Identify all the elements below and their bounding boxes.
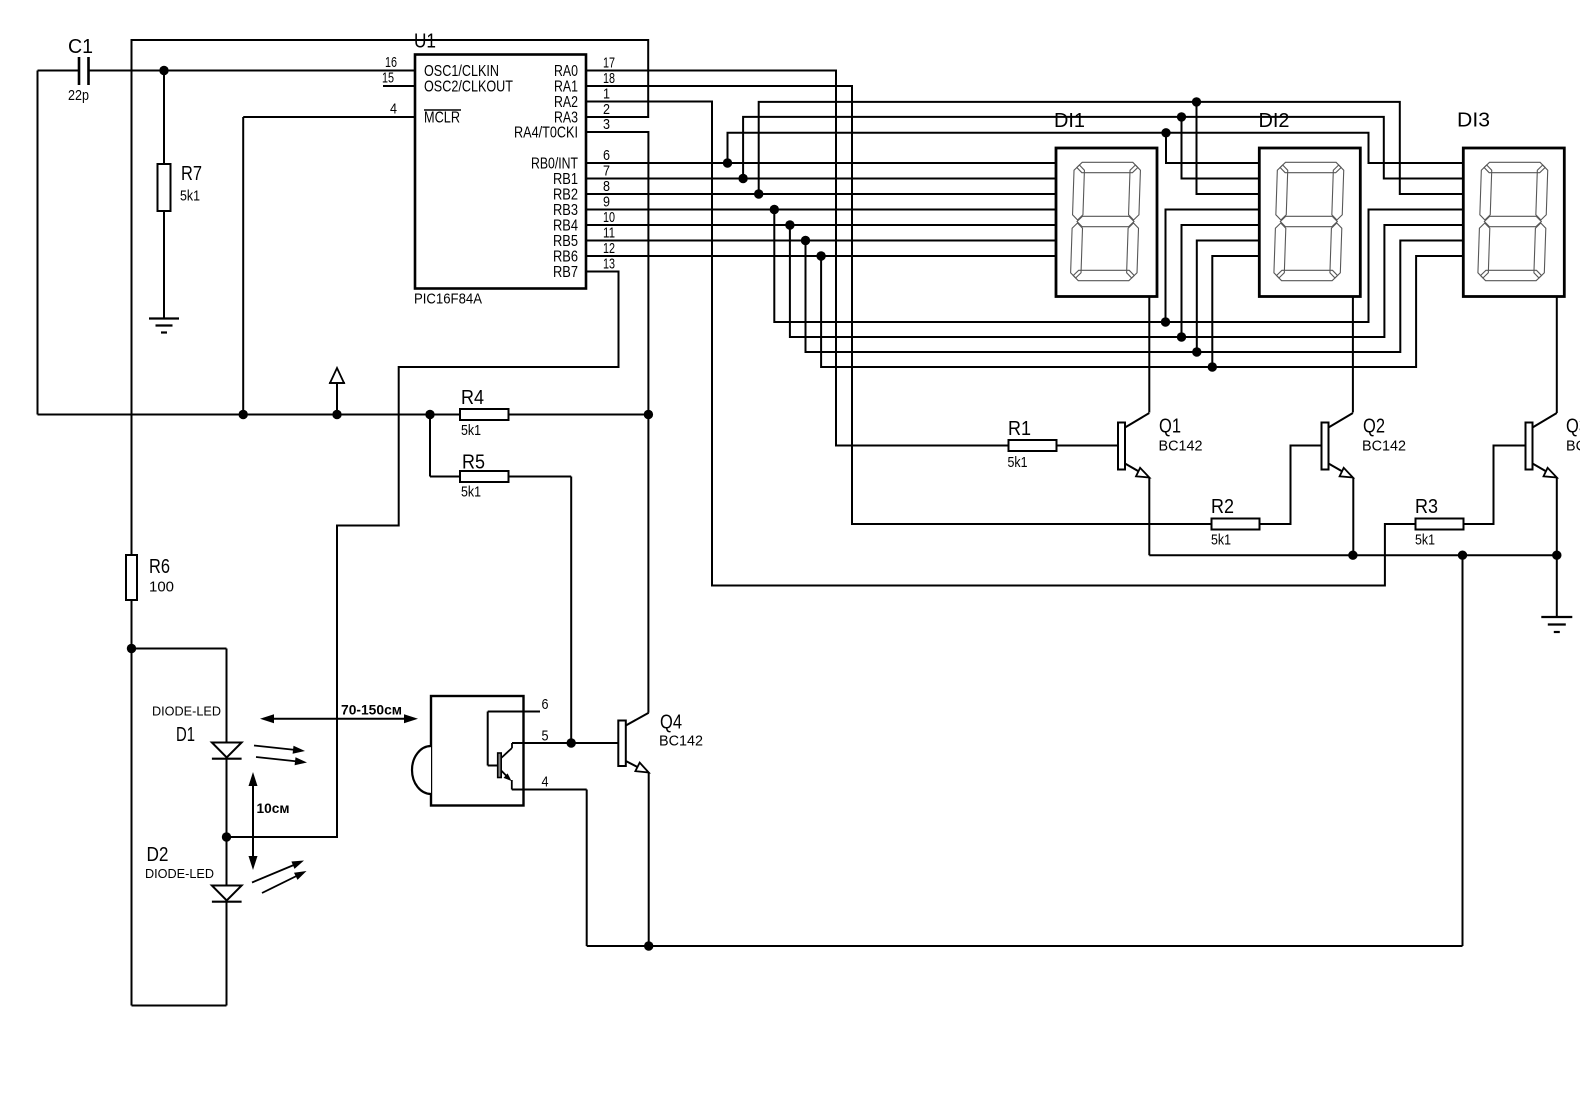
svg-text:RB4: RB4 xyxy=(553,218,578,235)
svg-text:RB3: RB3 xyxy=(553,202,578,219)
svg-text:70-150см: 70-150см xyxy=(341,702,402,718)
svg-text:R1: R1 xyxy=(1008,418,1031,440)
svg-text:C1: C1 xyxy=(68,36,93,58)
svg-text:17: 17 xyxy=(603,55,615,72)
svg-text:R3: R3 xyxy=(1415,496,1438,518)
svg-text:U1: U1 xyxy=(414,31,436,53)
svg-text:Q4: Q4 xyxy=(660,712,682,734)
svg-text:22p: 22p xyxy=(68,87,89,104)
svg-text:15: 15 xyxy=(382,70,394,87)
svg-text:RB5: RB5 xyxy=(553,233,578,250)
svg-text:4: 4 xyxy=(390,101,397,118)
svg-text:RA4/T0CKI: RA4/T0CKI xyxy=(514,125,578,142)
svg-text:5k1: 5k1 xyxy=(180,188,200,205)
svg-text:R7: R7 xyxy=(181,163,202,185)
svg-text:RB2: RB2 xyxy=(553,187,578,204)
svg-text:RB6: RB6 xyxy=(553,249,578,266)
svg-text:R6: R6 xyxy=(149,556,170,578)
svg-text:8: 8 xyxy=(603,178,610,195)
svg-text:RB7: RB7 xyxy=(553,264,578,281)
svg-text:7: 7 xyxy=(603,163,610,180)
svg-text:RB1: RB1 xyxy=(553,171,578,188)
svg-text:1: 1 xyxy=(603,86,610,103)
svg-text:Q3: Q3 xyxy=(1566,416,1580,438)
svg-text:DI1: DI1 xyxy=(1054,110,1085,132)
svg-text:DI2: DI2 xyxy=(1259,110,1290,132)
svg-text:OSC1/CLKIN: OSC1/CLKIN xyxy=(424,63,499,80)
svg-text:6: 6 xyxy=(542,696,549,713)
svg-text:5k1: 5k1 xyxy=(461,422,481,439)
svg-text:RA2: RA2 xyxy=(554,94,578,111)
svg-text:4: 4 xyxy=(542,774,549,791)
svg-text:Q2: Q2 xyxy=(1363,416,1385,438)
svg-text:DIODE-LED: DIODE-LED xyxy=(152,704,221,719)
svg-text:10см: 10см xyxy=(257,800,290,816)
svg-text:18: 18 xyxy=(603,70,615,87)
svg-text:16: 16 xyxy=(385,54,397,71)
svg-text:Q1: Q1 xyxy=(1159,416,1181,438)
svg-text:R5: R5 xyxy=(462,452,485,474)
svg-text:5k1: 5k1 xyxy=(1415,532,1435,549)
svg-text:DIODE-LED: DIODE-LED xyxy=(145,866,214,881)
svg-text:9: 9 xyxy=(603,194,610,211)
svg-text:R4: R4 xyxy=(461,387,484,409)
svg-text:RA0: RA0 xyxy=(554,63,578,80)
svg-text:100: 100 xyxy=(149,579,174,596)
svg-text:3: 3 xyxy=(603,116,610,133)
svg-text:12: 12 xyxy=(603,240,615,257)
svg-text:BC142: BC142 xyxy=(1566,438,1580,455)
svg-text:5k1: 5k1 xyxy=(461,484,481,501)
svg-text:5k1: 5k1 xyxy=(1211,532,1231,549)
svg-text:MCLR: MCLR xyxy=(424,110,460,127)
svg-text:RA1: RA1 xyxy=(554,79,578,96)
svg-text:D2: D2 xyxy=(147,844,169,866)
svg-text:BC142: BC142 xyxy=(1159,438,1203,455)
svg-text:5k1: 5k1 xyxy=(1008,454,1028,471)
svg-text:OSC2/CLKOUT: OSC2/CLKOUT xyxy=(424,79,513,96)
svg-text:BC142: BC142 xyxy=(659,733,703,750)
svg-text:5: 5 xyxy=(542,728,549,745)
svg-text:D1: D1 xyxy=(176,724,195,746)
svg-text:R2: R2 xyxy=(1211,496,1234,518)
svg-text:RB0/INT: RB0/INT xyxy=(531,156,578,173)
svg-text:BC142: BC142 xyxy=(1362,438,1406,455)
svg-text:PIC16F84A: PIC16F84A xyxy=(414,291,482,308)
svg-text:11: 11 xyxy=(603,225,615,242)
svg-text:6: 6 xyxy=(603,147,610,164)
svg-text:13: 13 xyxy=(603,256,615,273)
svg-text:DI3: DI3 xyxy=(1457,110,1490,132)
svg-text:10: 10 xyxy=(603,209,615,226)
